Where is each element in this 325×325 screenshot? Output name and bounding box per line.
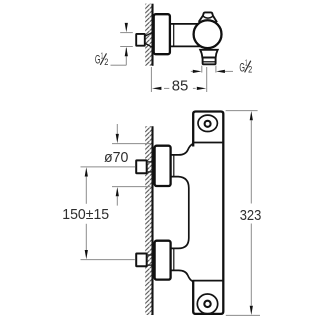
upper arm top edge <box>172 144 193 155</box>
knob on top of valve body <box>199 12 217 22</box>
wall hatching (bottom figure) <box>145 126 152 315</box>
dimension 323 <box>226 111 260 316</box>
svg-text:ø70: ø70 <box>104 149 128 166</box>
escutcheon (top figure) <box>154 14 170 54</box>
dimension 85 <box>151 67 206 92</box>
label G1/2 left <box>95 50 108 67</box>
outlet cone <box>200 50 218 58</box>
wall line (top figure) <box>151 4 153 66</box>
wall line (bottom figure) <box>151 126 153 315</box>
lower arm bottom edge <box>172 270 193 281</box>
mixer bar plate <box>193 112 223 314</box>
outlet nipple G1/2 <box>203 58 216 65</box>
inlet tube stub G1/2 (top figure) <box>136 32 152 47</box>
neck flange lines <box>173 155 175 177</box>
ear joint line bottom <box>192 280 223 282</box>
top mounting hole <box>198 115 217 131</box>
dimension 150±15 <box>81 167 136 260</box>
label G1/2 right <box>239 58 252 75</box>
upper escutcheon (bottom figure) <box>155 146 171 186</box>
ear joint line top <box>192 142 223 144</box>
wall hatching (top figure) <box>145 4 152 66</box>
svg-text:323: 323 <box>240 207 262 224</box>
lower inlet stub (bottom figure) <box>136 254 153 267</box>
svg-text:150±15: 150±15 <box>62 206 109 223</box>
dimension G1/2 (left inlet) <box>111 33 133 66</box>
svg-text:G: G <box>95 52 101 66</box>
dimension G1/2 (outlet) <box>191 66 233 73</box>
svg-text:2: 2 <box>248 65 252 75</box>
upper arm bottom edge + body tube + lower arm top edge <box>172 177 189 249</box>
lower escutcheon (bottom figure) <box>155 241 171 280</box>
dimension ø70 <box>112 124 151 206</box>
valve body circle <box>194 20 222 48</box>
connecting arms and body tube <box>172 144 193 282</box>
svg-text:2: 2 <box>104 57 108 67</box>
flange line at escutcheon <box>173 24 175 47</box>
upper inlet stub (bottom figure) <box>136 160 153 173</box>
svg-text:85: 85 <box>172 78 189 95</box>
cylinder body <box>171 24 200 47</box>
bottom mounting hole <box>197 294 217 314</box>
